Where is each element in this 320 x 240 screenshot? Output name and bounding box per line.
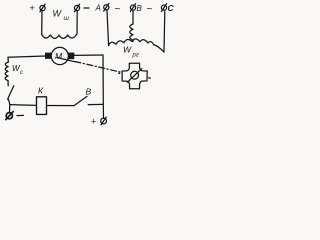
svg-text:ш: ш (64, 15, 70, 22)
svg-text:рг: рг (132, 53, 139, 59)
svg-text:В: В (86, 87, 92, 97)
svg-text:~: ~ (115, 4, 121, 15)
svg-text:W: W (123, 45, 132, 55)
svg-text:B: B (137, 4, 143, 13)
svg-text:c: c (20, 70, 23, 76)
svg-text:M: M (55, 51, 63, 61)
svg-text:+: + (91, 117, 96, 127)
svg-text:~: ~ (147, 4, 153, 15)
svg-text:C: C (168, 3, 175, 13)
svg-text:+: + (30, 3, 35, 13)
svg-text:A: A (95, 4, 101, 13)
